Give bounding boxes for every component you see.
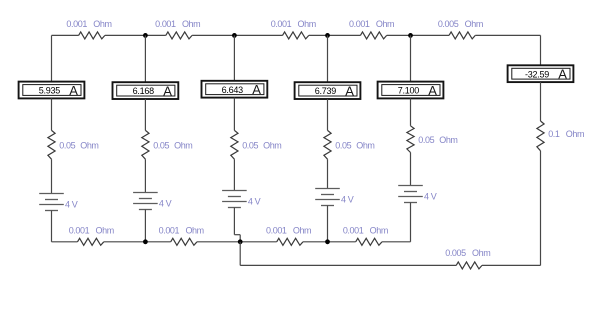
ammeter M5 reading 7.100 A xyxy=(378,82,444,99)
wire bottom rail segment 5 xyxy=(382,241,411,243)
wire load branch ammeter to resistor xyxy=(540,82,542,121)
resistor Rb4 0.05 Ohm (branch 4) xyxy=(324,130,331,159)
svg-text:0.001 Ohm: 0.001 Ohm xyxy=(271,19,316,29)
wire branch 2 ammeter to resistor xyxy=(144,99,146,130)
wire bottom rail segment 4 xyxy=(303,241,356,243)
ammeter M3 reading 6.643 A xyxy=(202,81,268,98)
svg-text:7.100: 7.100 xyxy=(398,86,420,96)
wire branch 3 rail to ammeter xyxy=(233,35,235,80)
resistor R9 0.001 Ohm (bottom rail) xyxy=(356,238,382,245)
ammeter M4 reading 6.739 A xyxy=(295,82,361,99)
wire top rail segment 1 xyxy=(52,34,79,36)
svg-text:0.001 Ohm: 0.001 Ohm xyxy=(343,225,388,235)
svg-text:4 V: 4 V xyxy=(341,194,354,204)
wire lower path horizontal right part xyxy=(482,264,541,266)
resistor R7 0.001 Ohm (bottom rail) xyxy=(171,238,197,245)
node N3 top (junction dot) xyxy=(232,33,237,38)
svg-text:A: A xyxy=(428,83,437,98)
wire bottom rail segment 3 xyxy=(197,241,277,243)
wire top rail segment 2 xyxy=(105,34,166,36)
resistor R6 0.001 Ohm (bottom rail) xyxy=(78,238,104,245)
wire branch 4 resistor to battery xyxy=(327,159,329,188)
wire lower path down from node N3 bottom xyxy=(239,242,241,266)
battery V3 4 V xyxy=(222,191,247,208)
node N5 top (junction dot) xyxy=(408,33,413,38)
wire branch 3 jog down to bottom rail xyxy=(239,235,241,242)
svg-text:4 V: 4 V xyxy=(248,196,261,206)
svg-text:4 V: 4 V xyxy=(65,199,78,209)
node N3 bottom (junction dot) xyxy=(238,239,243,244)
wire lower path up to load branch xyxy=(540,151,542,266)
resistor Rb1 0.05 Ohm (branch 1) xyxy=(48,130,55,159)
svg-text:A: A xyxy=(345,83,354,98)
wire branch 4 battery to bottom rail xyxy=(327,206,329,242)
battery V2 4 V xyxy=(133,193,158,210)
resistor R1 0.001 Ohm (top rail) xyxy=(79,32,105,39)
svg-text:6.643: 6.643 xyxy=(222,85,244,95)
svg-text:4 V: 4 V xyxy=(424,191,437,201)
resistor R10 0.005 Ohm (lower path) xyxy=(456,262,482,269)
wire top rail segment 6 to right corner xyxy=(475,34,540,36)
svg-text:0.005 Ohm: 0.005 Ohm xyxy=(445,248,490,258)
wire branch 3 battery to jog xyxy=(233,208,235,235)
wire branch 3 jog horizontal xyxy=(234,234,240,236)
resistor Rb5 0.05 Ohm (branch 5) xyxy=(407,126,414,153)
resistor Rb2 0.05 Ohm (branch 2) xyxy=(142,130,149,159)
svg-text:A: A xyxy=(252,82,261,97)
resistor R4 0.001 Ohm (top rail) xyxy=(360,32,386,39)
resistor R11 0.1 Ohm (load) xyxy=(537,121,544,151)
node N4 bottom (junction dot) xyxy=(325,239,330,244)
svg-text:0.05 Ohm: 0.05 Ohm xyxy=(59,141,98,151)
wire lower path horizontal left part xyxy=(240,264,456,266)
wire branch 1 resistor to battery xyxy=(51,159,53,193)
battery V4 4 V xyxy=(315,189,340,206)
wire branch 4 rail to ammeter xyxy=(327,35,329,82)
ammeter M6 reading -32.59 A xyxy=(508,65,574,82)
resistor Rb3 0.05 Ohm (branch 3) xyxy=(231,130,238,159)
resistor R2 0.001 Ohm (top rail) xyxy=(166,32,192,39)
svg-text:0.001 Ohm: 0.001 Ohm xyxy=(159,225,204,235)
svg-text:4 V: 4 V xyxy=(159,198,172,208)
wire branch 1 battery to bottom rail xyxy=(51,211,53,242)
node N4 top (junction dot) xyxy=(325,33,330,38)
svg-text:0.001 Ohm: 0.001 Ohm xyxy=(66,19,111,29)
svg-text:0.05 Ohm: 0.05 Ohm xyxy=(242,141,281,151)
node N2 bottom (junction dot) xyxy=(143,239,148,244)
wire branch 1 rail to ammeter xyxy=(51,35,53,81)
wire bottom rail segment 2 xyxy=(104,241,171,243)
svg-text:0.05 Ohm: 0.05 Ohm xyxy=(418,135,457,145)
svg-text:6.739: 6.739 xyxy=(315,86,337,96)
wire branch 5 rail to ammeter xyxy=(410,35,412,81)
wire branch 1 ammeter to resistor xyxy=(51,98,53,130)
wire branch 5 resistor to battery xyxy=(410,153,412,186)
wire top rail segment 4 xyxy=(309,34,361,36)
svg-text:0.001 Ohm: 0.001 Ohm xyxy=(349,19,394,29)
wire branch 4 ammeter to resistor xyxy=(327,99,329,130)
wire top rail segment 3 xyxy=(192,34,282,36)
wire branch 3 resistor to battery xyxy=(233,159,235,190)
svg-text:5.935: 5.935 xyxy=(39,86,61,96)
wire branch 2 rail to ammeter xyxy=(144,35,146,82)
resistor R3 0.001 Ohm (top rail) xyxy=(283,32,309,39)
wire branch 2 resistor to battery xyxy=(144,159,146,192)
svg-text:0.05 Ohm: 0.05 Ohm xyxy=(335,141,374,151)
svg-text:A: A xyxy=(558,67,567,82)
battery V5 4 V xyxy=(398,186,423,203)
svg-text:6.168: 6.168 xyxy=(133,86,155,96)
svg-text:-32.59: -32.59 xyxy=(525,69,549,79)
svg-text:A: A xyxy=(163,83,172,98)
svg-text:0.001 Ohm: 0.001 Ohm xyxy=(155,19,200,29)
wire top rail segment 5 xyxy=(387,34,449,36)
svg-text:0.001 Ohm: 0.001 Ohm xyxy=(69,225,114,235)
svg-text:A: A xyxy=(69,83,78,98)
svg-text:0.05 Ohm: 0.05 Ohm xyxy=(153,141,192,151)
wire branch 3 ammeter to resistor xyxy=(233,98,235,131)
svg-text:0.001 Ohm: 0.001 Ohm xyxy=(266,225,311,235)
battery V1 4 V xyxy=(39,194,64,211)
wire branch 2 battery to bottom rail xyxy=(144,210,146,242)
ammeter M1 reading 5.935 A xyxy=(19,82,85,99)
wire load branch rail corner down to ammeter xyxy=(540,35,542,65)
svg-text:0.1 Ohm: 0.1 Ohm xyxy=(548,129,584,139)
wire branch 5 ammeter to resistor xyxy=(410,98,412,125)
wire bottom rail segment 1 xyxy=(52,241,78,243)
wire branch 5 battery to bottom rail xyxy=(410,203,412,242)
node N2 top (junction dot) xyxy=(143,33,148,38)
resistor R8 0.001 Ohm (bottom rail) xyxy=(277,238,303,245)
ammeter M2 reading 6.168 A xyxy=(113,82,179,99)
resistor R5 0.005 Ohm (top rail) xyxy=(449,32,475,39)
svg-text:0.005 Ohm: 0.005 Ohm xyxy=(438,19,483,29)
